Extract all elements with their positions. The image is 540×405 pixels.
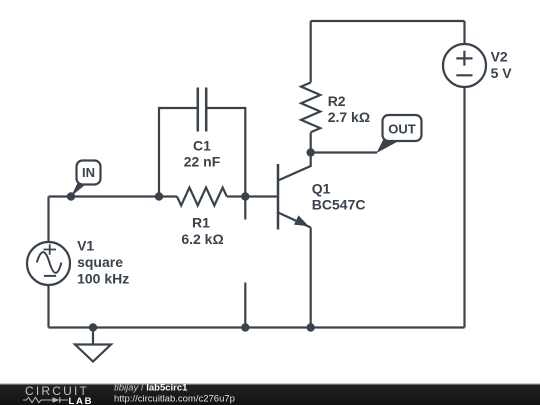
logo wire xyxy=(60,399,68,401)
svg-text:square: square xyxy=(77,254,123,270)
wire stub above bottom rail xyxy=(244,283,246,328)
logo diode bar xyxy=(59,397,61,403)
svg-text:6.2 kΩ: 6.2 kΩ xyxy=(181,231,223,247)
ground junction dot xyxy=(89,323,97,331)
svg-text:R1: R1 xyxy=(192,215,210,231)
junction dot emitter/bottom rail xyxy=(307,323,315,331)
OUT flag tail xyxy=(377,139,401,153)
svg-text:OUT: OUT xyxy=(388,121,416,136)
source V1 plus xyxy=(44,244,57,255)
svg-text:5 V: 5 V xyxy=(491,65,513,81)
resistor R2 xyxy=(301,83,320,133)
CircuitLab logo squiggle xyxy=(22,395,72,405)
source V1 sine xyxy=(37,252,62,273)
IN flag tail xyxy=(71,184,87,197)
CircuitLab logo wordmark xyxy=(25,386,89,397)
wire C1 left branch xyxy=(159,108,197,197)
wire V2 top lead xyxy=(463,21,465,44)
ground lead xyxy=(92,328,94,345)
svg-text:100 kHz: 100 kHz xyxy=(77,271,129,287)
CircuitLab logo LAB xyxy=(69,396,94,405)
transistor Q1 emitter arrow xyxy=(294,215,309,226)
wire R2 bottom lead xyxy=(310,133,312,153)
wire emitter to bottom rail xyxy=(310,228,312,328)
svg-text:BC547C: BC547C xyxy=(312,197,366,213)
node OUT junction dot (collector) xyxy=(307,148,315,156)
logo diode triangle xyxy=(53,397,60,403)
svg-text:V1: V1 xyxy=(77,238,94,254)
footer bar xyxy=(0,383,540,385)
source V2 minus xyxy=(456,74,472,76)
wire R2 top lead xyxy=(310,21,312,83)
svg-text:C1: C1 xyxy=(193,137,211,153)
source V1 circle xyxy=(27,242,70,285)
junction dot stub/bottom rail xyxy=(241,323,249,331)
svg-text:tibijay / lab5circ1: tibijay / lab5circ1 xyxy=(114,383,188,394)
node A junction dot (R1/C1 left) xyxy=(155,192,163,200)
OUT flag box xyxy=(383,115,422,141)
svg-text:V2: V2 xyxy=(491,49,508,65)
svg-text:22 nF: 22 nF xyxy=(184,154,221,170)
wire V1 bottom lead xyxy=(47,285,49,328)
wire IN row right xyxy=(227,195,278,197)
wire bottom rail xyxy=(49,326,465,328)
transistor Q1 base bar xyxy=(277,164,280,230)
wire V2 bottom lead xyxy=(463,87,465,328)
source V1 minus xyxy=(44,275,56,277)
transistor Q1 emitter xyxy=(278,213,311,228)
IN flag box xyxy=(77,161,101,185)
svg-text:Q1: Q1 xyxy=(312,181,331,197)
wire OUT branch xyxy=(311,151,377,153)
ground triangle xyxy=(75,345,111,362)
node IN junction dot xyxy=(67,192,75,200)
source V2 plus xyxy=(456,51,472,66)
wire top rail xyxy=(311,20,465,22)
svg-text:R2: R2 xyxy=(328,93,346,109)
wire IN row left xyxy=(49,195,178,197)
transistor Q1 collector xyxy=(278,153,311,181)
svg-text:IN: IN xyxy=(82,165,95,180)
node B junction dot (R1/C1 right) xyxy=(241,192,249,200)
resistor R1 xyxy=(177,188,227,206)
wire stub below node B xyxy=(244,197,246,220)
logo resistor zigzag xyxy=(23,397,53,402)
svg-text:http://circuitlab.com/c276u7p: http://circuitlab.com/c276u7p xyxy=(114,394,235,405)
source V2 circle xyxy=(443,44,486,87)
svg-text:2.7 kΩ: 2.7 kΩ xyxy=(328,109,370,125)
wire V1 top lead xyxy=(47,197,49,243)
wire C1 right branch xyxy=(207,108,246,197)
capacitor C1 plates xyxy=(198,88,206,132)
